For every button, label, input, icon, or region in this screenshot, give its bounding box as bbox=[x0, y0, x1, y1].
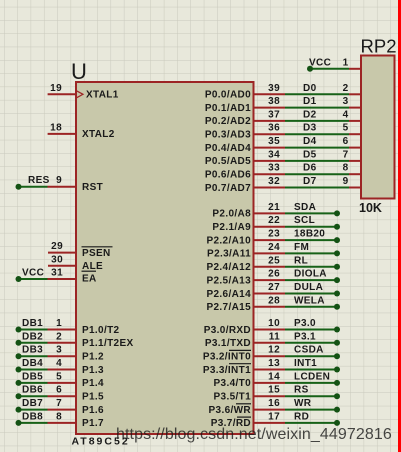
svg-text:DIOLA: DIOLA bbox=[294, 269, 327, 280]
svg-text:D1: D1 bbox=[303, 96, 317, 107]
svg-text:P2.4/A12: P2.4/A12 bbox=[207, 262, 252, 273]
chip U1 body AT89C52 bbox=[76, 82, 254, 434]
wire RD bbox=[285, 411, 340, 426]
svg-text:P1.2: P1.2 bbox=[82, 352, 104, 363]
pin 4 P1.3 bbox=[48, 358, 105, 376]
svg-text:D2: D2 bbox=[303, 109, 317, 120]
svg-text:P2.0/A8: P2.0/A8 bbox=[212, 209, 251, 220]
pin 24 P2.3/A11 bbox=[207, 242, 285, 260]
svg-text:P1.6: P1.6 bbox=[82, 405, 104, 416]
svg-text:10K: 10K bbox=[359, 201, 382, 215]
wire SDA bbox=[285, 202, 340, 217]
sheet border right bbox=[398, 0, 401, 452]
wire P3.0 bbox=[285, 318, 340, 333]
svg-text:7: 7 bbox=[343, 149, 349, 160]
svg-text:21: 21 bbox=[268, 202, 280, 213]
svg-text:DB2: DB2 bbox=[22, 331, 43, 342]
wire DB8 bbox=[16, 411, 48, 426]
svg-text:P2.2/A10: P2.2/A10 bbox=[207, 235, 252, 246]
svg-text:D3: D3 bbox=[303, 123, 317, 134]
svg-text:D5: D5 bbox=[303, 149, 317, 160]
svg-text:P2.1/A9: P2.1/A9 bbox=[212, 222, 251, 233]
svg-text:8: 8 bbox=[56, 411, 62, 422]
svg-text:29: 29 bbox=[51, 241, 63, 252]
pin 39 P0.0/AD0 bbox=[205, 83, 285, 101]
wire WR bbox=[285, 398, 340, 413]
wire INT1 bbox=[285, 358, 340, 373]
svg-text:3: 3 bbox=[343, 96, 349, 107]
pin 19 XTAL1 bbox=[48, 83, 119, 101]
svg-text:D0: D0 bbox=[303, 83, 317, 94]
pin 25 P2.4/A12 bbox=[207, 255, 286, 273]
svg-text:30: 30 bbox=[51, 254, 63, 265]
svg-text:15: 15 bbox=[268, 385, 280, 396]
wire P3.1 bbox=[285, 331, 340, 346]
svg-text:RP2: RP2 bbox=[361, 36, 397, 57]
svg-text:31: 31 bbox=[51, 268, 63, 279]
pin 31 EA bbox=[48, 268, 97, 285]
svg-text:P3.4/T0: P3.4/T0 bbox=[214, 378, 252, 389]
svg-text:INT1: INT1 bbox=[294, 358, 317, 369]
svg-text:5: 5 bbox=[56, 371, 62, 382]
svg-text:P1.4: P1.4 bbox=[82, 378, 104, 389]
svg-text:P3.6/WR: P3.6/WR bbox=[209, 405, 252, 416]
svg-text:9: 9 bbox=[56, 175, 62, 186]
pin 16 P3.6/WR bbox=[209, 398, 285, 416]
pin 3 P1.2 bbox=[48, 345, 105, 363]
svg-text:DB8: DB8 bbox=[22, 411, 43, 422]
svg-text:33: 33 bbox=[268, 163, 280, 174]
svg-text:1: 1 bbox=[343, 57, 349, 68]
pin 30 ALE bbox=[48, 254, 103, 272]
svg-text:DB1: DB1 bbox=[22, 318, 43, 329]
svg-text:36: 36 bbox=[268, 123, 280, 134]
wire DB6 bbox=[16, 385, 48, 400]
pin 6 P1.5 bbox=[48, 385, 105, 403]
svg-text:P2.7/A15: P2.7/A15 bbox=[207, 302, 252, 313]
pin 28 P2.7/A15 bbox=[207, 295, 286, 313]
svg-text:P0.5/AD5: P0.5/AD5 bbox=[205, 156, 251, 167]
svg-text:2: 2 bbox=[56, 331, 62, 342]
svg-text:PSEN: PSEN bbox=[82, 248, 111, 259]
svg-text:SCL: SCL bbox=[294, 215, 315, 226]
svg-text:18B20: 18B20 bbox=[294, 229, 325, 240]
RP2 pin 8 bbox=[343, 163, 361, 175]
svg-text:P1.1/T2EX: P1.1/T2EX bbox=[82, 338, 134, 349]
svg-text:RL: RL bbox=[294, 255, 308, 266]
svg-text:XTAL1: XTAL1 bbox=[86, 90, 119, 101]
wire DB1 bbox=[16, 318, 48, 333]
svg-text:1: 1 bbox=[56, 318, 62, 329]
wire RS bbox=[285, 385, 340, 400]
wire DB7 bbox=[16, 398, 48, 413]
wire FM bbox=[285, 242, 340, 257]
svg-text:38: 38 bbox=[268, 96, 280, 107]
svg-text:P3.0: P3.0 bbox=[294, 318, 316, 329]
pin 34 P0.5/AD5 bbox=[205, 149, 285, 167]
wire D5 bbox=[285, 149, 349, 161]
wire DULA bbox=[285, 282, 340, 297]
svg-text:22: 22 bbox=[268, 215, 280, 226]
svg-text:4: 4 bbox=[56, 358, 62, 369]
wire WELA bbox=[285, 295, 340, 310]
svg-text:VCC: VCC bbox=[309, 57, 331, 68]
svg-text:7: 7 bbox=[56, 398, 62, 409]
svg-text:P0.7/AD7: P0.7/AD7 bbox=[205, 183, 251, 194]
svg-text:DB6: DB6 bbox=[22, 385, 43, 396]
svg-text:6: 6 bbox=[343, 136, 349, 147]
svg-text:VCC: VCC bbox=[22, 268, 44, 279]
svg-text:P1.0/T2: P1.0/T2 bbox=[82, 325, 120, 336]
pin 1 P1.0/T2 bbox=[48, 318, 120, 336]
svg-text:4: 4 bbox=[343, 109, 349, 120]
svg-text:32: 32 bbox=[268, 176, 280, 187]
svg-text:D6: D6 bbox=[303, 163, 317, 174]
svg-text:P1.7: P1.7 bbox=[82, 418, 104, 429]
svg-text:P0.3/AD3: P0.3/AD3 bbox=[205, 130, 251, 141]
pin 23 P2.2/A10 bbox=[207, 229, 286, 247]
pin 27 P2.6/A14 bbox=[207, 282, 286, 300]
wire DB5 bbox=[16, 371, 48, 386]
svg-text:39: 39 bbox=[268, 83, 280, 94]
pin 36 P0.3/AD3 bbox=[205, 123, 285, 141]
pin 7 P1.6 bbox=[48, 398, 105, 416]
svg-text:37: 37 bbox=[268, 109, 280, 120]
RP2 pin 9 bbox=[343, 176, 361, 188]
svg-text:D7: D7 bbox=[303, 176, 317, 187]
wire LCDEN bbox=[285, 371, 340, 386]
pin 10 P3.0/RXD bbox=[204, 318, 285, 336]
svg-text:16: 16 bbox=[268, 398, 280, 409]
wire VCC top bbox=[307, 57, 349, 72]
svg-text:18: 18 bbox=[50, 122, 62, 133]
svg-text:RES: RES bbox=[28, 175, 50, 186]
pin 9 RST bbox=[48, 175, 104, 193]
wire D2 bbox=[285, 109, 349, 121]
svg-text:WELA: WELA bbox=[294, 295, 325, 306]
svg-text:6: 6 bbox=[56, 385, 62, 396]
svg-text:11: 11 bbox=[269, 331, 280, 342]
svg-text:26: 26 bbox=[268, 269, 280, 280]
svg-text:8: 8 bbox=[343, 163, 349, 174]
pin 18 XTAL2 bbox=[48, 122, 115, 140]
svg-text:12: 12 bbox=[268, 345, 280, 356]
pin 15 P3.5/T1 bbox=[214, 385, 285, 403]
svg-text:CSDA: CSDA bbox=[294, 345, 324, 356]
wire D3 bbox=[285, 123, 349, 135]
wire D1 bbox=[285, 96, 349, 108]
svg-text:P0.2/AD2: P0.2/AD2 bbox=[205, 116, 251, 127]
svg-text:WR: WR bbox=[294, 398, 312, 409]
svg-text:https://blog.csdn.net/weixin_4: https://blog.csdn.net/weixin_44972816 bbox=[116, 426, 392, 443]
wire CSDA bbox=[285, 345, 340, 360]
wire DIOLA bbox=[285, 269, 340, 284]
svg-text:P2.5/A13: P2.5/A13 bbox=[207, 275, 252, 286]
pin 12 P3.2/INT0 bbox=[203, 345, 285, 363]
svg-text:27: 27 bbox=[268, 282, 280, 293]
svg-text:P3.2/INT0: P3.2/INT0 bbox=[203, 352, 251, 363]
svg-text:U: U bbox=[71, 59, 87, 84]
svg-text:SDA: SDA bbox=[294, 202, 316, 213]
pin 37 P0.2/AD2 bbox=[205, 109, 285, 127]
svg-text:17: 17 bbox=[268, 411, 280, 422]
RP2 pin 4 bbox=[343, 109, 361, 121]
resistor pack RP2 bbox=[359, 36, 397, 216]
RP2 pin 1 bbox=[343, 57, 361, 69]
pin 26 P2.5/A13 bbox=[207, 269, 286, 287]
svg-text:D4: D4 bbox=[303, 136, 317, 147]
svg-text:DB4: DB4 bbox=[22, 358, 43, 369]
svg-text:DB3: DB3 bbox=[22, 345, 43, 356]
svg-text:P0.0/AD0: P0.0/AD0 bbox=[205, 90, 251, 101]
svg-text:P2.3/A11: P2.3/A11 bbox=[207, 249, 251, 260]
svg-text:P1.3: P1.3 bbox=[82, 365, 104, 376]
pin 32 P0.7/AD7 bbox=[205, 176, 285, 194]
wire DB2 bbox=[16, 331, 48, 346]
wire SCL bbox=[285, 215, 340, 230]
wire D4 bbox=[285, 136, 349, 148]
RP2 pin 5 bbox=[343, 123, 361, 135]
svg-text:P3.3/INT1: P3.3/INT1 bbox=[203, 365, 251, 376]
svg-text:13: 13 bbox=[268, 358, 280, 369]
svg-text:P0.6/AD6: P0.6/AD6 bbox=[205, 170, 251, 181]
wire RES bbox=[16, 175, 50, 190]
svg-text:RD: RD bbox=[294, 411, 309, 422]
RP2 pin 6 bbox=[343, 136, 361, 148]
pin 11 P3.1/TXD bbox=[205, 331, 285, 349]
pin 29 PSEN bbox=[48, 241, 113, 259]
svg-text:P2.6/A14: P2.6/A14 bbox=[207, 289, 252, 300]
pin 21 P2.0/A8 bbox=[212, 202, 285, 220]
svg-text:DULA: DULA bbox=[294, 282, 323, 293]
svg-text:14: 14 bbox=[268, 371, 280, 382]
svg-text:P0.4/AD4: P0.4/AD4 bbox=[205, 143, 251, 154]
svg-text:P3.5/T1: P3.5/T1 bbox=[214, 392, 252, 403]
svg-text:9: 9 bbox=[343, 176, 349, 187]
wire VCC left bbox=[16, 268, 48, 283]
svg-text:ALE: ALE bbox=[82, 261, 103, 272]
svg-text:25: 25 bbox=[268, 255, 280, 266]
pin 14 P3.4/T0 bbox=[214, 371, 285, 389]
wire D6 bbox=[285, 163, 349, 175]
svg-text:FM: FM bbox=[294, 242, 309, 253]
pin 33 P0.6/AD6 bbox=[205, 163, 285, 181]
svg-text:RST: RST bbox=[82, 182, 103, 193]
svg-text:XTAL2: XTAL2 bbox=[82, 129, 115, 140]
wire D0 bbox=[285, 83, 349, 95]
pin 22 P2.1/A9 bbox=[212, 215, 285, 233]
svg-text:2: 2 bbox=[343, 83, 349, 94]
RP2 pin 2 bbox=[343, 83, 361, 95]
pin 17 P3.7/RD bbox=[211, 411, 285, 429]
svg-text:10: 10 bbox=[268, 318, 280, 329]
RP2 pin 3 bbox=[343, 96, 361, 108]
svg-text:19: 19 bbox=[50, 83, 62, 94]
pin 2 P1.1/T2EX bbox=[48, 331, 134, 349]
svg-text:28: 28 bbox=[268, 295, 280, 306]
svg-text:P3.1: P3.1 bbox=[294, 331, 316, 342]
wire RL bbox=[285, 255, 340, 270]
svg-text:P3.1/TXD: P3.1/TXD bbox=[205, 338, 251, 349]
svg-text:DB5: DB5 bbox=[22, 371, 43, 382]
pin 38 P0.1/AD1 bbox=[205, 96, 285, 114]
wire DB4 bbox=[16, 358, 48, 373]
svg-text:P0.1/AD1: P0.1/AD1 bbox=[205, 103, 251, 114]
svg-text:35: 35 bbox=[268, 136, 280, 147]
svg-text:EA: EA bbox=[82, 274, 97, 285]
pin 13 P3.3/INT1 bbox=[203, 358, 285, 376]
pin 35 P0.4/AD4 bbox=[205, 136, 285, 154]
svg-text:3: 3 bbox=[56, 345, 62, 356]
svg-text:RS: RS bbox=[294, 385, 309, 396]
svg-text:23: 23 bbox=[268, 229, 280, 240]
svg-text:LCDEN: LCDEN bbox=[294, 371, 330, 382]
wire DB3 bbox=[16, 345, 48, 360]
svg-text:P3.0/RXD: P3.0/RXD bbox=[204, 325, 251, 336]
svg-text:24: 24 bbox=[268, 242, 280, 253]
svg-text:P1.5: P1.5 bbox=[82, 392, 104, 403]
pin 8 P1.7 bbox=[48, 411, 105, 429]
pin 5 P1.4 bbox=[48, 371, 105, 389]
wire 18B20 bbox=[285, 229, 340, 244]
wire D7 bbox=[285, 176, 349, 188]
RP2 pin 7 bbox=[343, 149, 361, 161]
svg-text:34: 34 bbox=[268, 149, 280, 160]
svg-text:DB7: DB7 bbox=[22, 398, 43, 409]
svg-text:5: 5 bbox=[343, 123, 349, 134]
